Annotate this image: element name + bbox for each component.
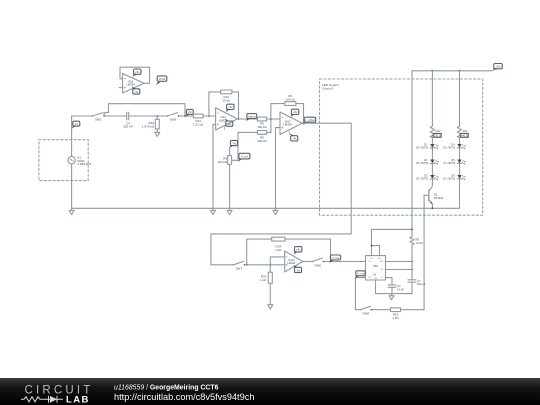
footer bar bbox=[0, 378, 540, 405]
svg-text:+9v: +9v bbox=[296, 248, 301, 252]
flag +9v OA1 bbox=[225, 104, 234, 112]
flag -9v R9 bbox=[229, 140, 237, 148]
node junction R20 bbox=[156, 115, 158, 117]
node thresh bbox=[411, 269, 413, 271]
capacitor C4 bbox=[123, 112, 133, 129]
resistor R11 bbox=[457, 126, 468, 137]
node rail2 bbox=[459, 70, 461, 72]
wire feedback OA2 bbox=[271, 104, 304, 124]
svg-text:12 kΩ: 12 kΩ bbox=[416, 241, 423, 245]
svg-text:100 kΩ: 100 kΩ bbox=[257, 139, 267, 143]
resistor R6 bbox=[257, 131, 267, 143]
wire source vertical bbox=[71, 116, 73, 208]
svg-text:940 Ω: 940 Ω bbox=[461, 133, 468, 137]
svg-text:LTL-30752: LTL-30752 bbox=[416, 161, 429, 165]
voltage source V2 dashed enclosure bbox=[39, 140, 88, 181]
svg-text:V_trig: V_trig bbox=[332, 256, 340, 260]
capacitor C2 bbox=[388, 284, 404, 294]
wire rail to C7 bbox=[411, 245, 413, 294]
flag V_ref bbox=[238, 153, 250, 161]
svg-text:500 nF: 500 nF bbox=[123, 125, 133, 129]
wire OA2 output to comparator loop bbox=[211, 123, 351, 265]
svg-text:SW1: SW1 bbox=[95, 118, 102, 122]
resistor R24 bbox=[272, 237, 285, 252]
node R25 tap bbox=[269, 264, 271, 266]
op-amp OA10 comparator bbox=[270, 251, 303, 272]
flag -9v OA10 bbox=[293, 265, 301, 273]
ground V2 bbox=[69, 208, 74, 214]
switch SW5 bbox=[167, 113, 179, 122]
flag V_offset bbox=[303, 117, 316, 125]
svg-text:530 Ω: 530 Ω bbox=[434, 133, 441, 137]
node 555 vcc bbox=[371, 245, 373, 247]
svg-text:+9v: +9v bbox=[228, 105, 233, 109]
svg-text:u1168559 / GeorgeMeiring CCT6: u1168559 / GeorgeMeiring CCT6 bbox=[114, 385, 219, 392]
flag V_trig bbox=[330, 255, 341, 263]
resistor R16 bbox=[221, 90, 232, 103]
flag -9v OA2 bbox=[289, 131, 297, 141]
LED D2 bbox=[416, 148, 439, 165]
op-amp OA5 buffer bbox=[119, 67, 149, 93]
SCHEMATIC_CONTENT bbox=[39, 64, 502, 321]
svg-text:-9v: -9v bbox=[296, 268, 301, 272]
capacitor C7 bbox=[408, 279, 426, 286]
svg-text:100 kΩ: 100 kΩ bbox=[217, 160, 227, 164]
resistor R4 bbox=[285, 94, 296, 106]
svg-text:555: 555 bbox=[373, 264, 378, 268]
node divider bbox=[270, 118, 272, 120]
svg-text:+9v: +9v bbox=[293, 110, 298, 114]
flag +9v top right bbox=[492, 64, 503, 72]
svg-text:OUT: OUT bbox=[368, 277, 372, 279]
voltage source V2 bbox=[68, 156, 92, 166]
wire +9v rail vertical bbox=[411, 71, 413, 237]
flag -9v OA5 bbox=[132, 86, 140, 94]
LED D6 bbox=[443, 163, 466, 180]
svg-text:Vs: Vs bbox=[75, 122, 79, 126]
svg-text:1 kΩ: 1 kΩ bbox=[275, 248, 282, 252]
svg-text:Vin: Vin bbox=[188, 110, 193, 114]
svg-text:LM324: LM324 bbox=[287, 261, 295, 265]
svg-text:-9v: -9v bbox=[134, 90, 139, 94]
svg-text:SW7: SW7 bbox=[236, 267, 243, 271]
svg-text:-9v: -9v bbox=[232, 141, 237, 145]
flag Vin bbox=[185, 109, 193, 116]
switch SW8 bbox=[360, 306, 372, 315]
switch SW6 bbox=[312, 258, 324, 267]
wire rail2 bottom bbox=[459, 179, 461, 208]
svg-text:SW6: SW6 bbox=[314, 263, 321, 267]
svg-text:LTL-30752: LTL-30752 bbox=[443, 146, 456, 150]
svg-text:2N3904: 2N3904 bbox=[434, 196, 444, 200]
LED D1 bbox=[416, 138, 439, 150]
resistor R21 bbox=[193, 114, 204, 127]
ground OA2 plus bbox=[273, 208, 278, 214]
ground R9 bbox=[227, 208, 232, 214]
ground R20 bbox=[155, 132, 160, 136]
svg-text:V_offset: V_offset bbox=[305, 118, 315, 122]
node OA2 output bbox=[303, 122, 305, 124]
svg-text:R11: R11 bbox=[463, 129, 468, 133]
svg-text:Vnull: Vnull bbox=[159, 77, 166, 81]
wire 555 ground bus bbox=[376, 280, 413, 294]
wire comparator feedback bbox=[247, 239, 331, 265]
resistor R25 bbox=[260, 265, 272, 305]
svg-text:100 kΩ: 100 kΩ bbox=[257, 125, 267, 129]
svg-text:C2: C2 bbox=[397, 284, 401, 288]
svg-text:LTL-30752: LTL-30752 bbox=[416, 177, 429, 181]
svg-text:LTL-30752: LTL-30752 bbox=[416, 146, 429, 150]
wire OA2 plus to ground bbox=[276, 128, 281, 209]
wire Q2 base rail bbox=[423, 195, 425, 309]
svg-text:V_ref: V_ref bbox=[241, 155, 248, 159]
LED D4 bbox=[443, 138, 466, 150]
ground R25 bbox=[268, 305, 273, 309]
flag Vs bbox=[72, 121, 80, 129]
wire 555 vcc loop bbox=[372, 229, 413, 255]
switch SW1 bbox=[92, 113, 105, 122]
flag V_out bbox=[355, 271, 365, 279]
wire rail2 top bbox=[459, 71, 461, 126]
svg-text:1 kΩ: 1 kΩ bbox=[260, 278, 267, 282]
op-amp OA2 bbox=[280, 112, 302, 135]
svg-text:1.685 kHz: 1.685 kHz bbox=[77, 162, 91, 166]
flag +9v OA5 bbox=[132, 69, 141, 77]
svg-text:500 μF: 500 μF bbox=[417, 282, 426, 286]
svg-text:Vamp: Vamp bbox=[248, 114, 256, 118]
svg-text:http://circuitlab.com/c8v5fvs9: http://circuitlab.com/c8v5fvs94t9ch bbox=[114, 392, 254, 402]
svg-text:LM324: LM324 bbox=[283, 123, 292, 127]
wire OA1 output bbox=[237, 118, 257, 120]
node rail 229 bbox=[411, 229, 413, 231]
switch SW7 bbox=[233, 261, 245, 270]
flag Vamp bbox=[246, 114, 257, 122]
svg-text:-9v: -9v bbox=[292, 137, 297, 141]
wire divider node bbox=[267, 119, 280, 132]
svg-text:1.875 kΩ: 1.875 kΩ bbox=[142, 124, 155, 128]
circuitlab logo bbox=[21, 385, 94, 405]
svg-text:SW5: SW5 bbox=[170, 118, 177, 122]
svg-text:LTL-30752: LTL-30752 bbox=[443, 177, 456, 181]
svg-text:-9v: -9v bbox=[227, 122, 232, 126]
flag -9v OA1 bbox=[225, 119, 233, 130]
wire feedback loop OA1 bbox=[209, 92, 239, 119]
svg-text:100 kΩ: 100 kΩ bbox=[286, 97, 296, 101]
resistor R8 bbox=[410, 237, 423, 246]
node disch bbox=[411, 261, 413, 263]
svg-text:10 kΩ: 10 kΩ bbox=[222, 99, 231, 103]
svg-text:U1: U1 bbox=[373, 273, 377, 277]
wire OA1 plus to ground bbox=[213, 124, 216, 208]
flag +9v OA10 bbox=[293, 247, 302, 255]
svg-text:R8: R8 bbox=[416, 238, 420, 242]
node OA1 output bbox=[238, 118, 240, 120]
svg-text:1 kΩ: 1 kΩ bbox=[392, 316, 399, 320]
svg-text:1.21 kΩ: 1.21 kΩ bbox=[193, 123, 204, 127]
node feedback riser bbox=[246, 264, 248, 266]
LED D3 bbox=[416, 163, 439, 180]
wire rail1 top bbox=[431, 71, 433, 126]
svg-text:SW8: SW8 bbox=[363, 312, 370, 316]
wire 555 out loop bbox=[355, 278, 424, 310]
svg-text:Circuit 6: Circuit 6 bbox=[322, 87, 334, 91]
node loop drop bbox=[184, 115, 186, 117]
svg-text:LAB: LAB bbox=[66, 395, 90, 405]
LED D5 bbox=[443, 148, 466, 165]
node feedback OA1 bbox=[208, 115, 210, 117]
wire 555 right pins bbox=[386, 262, 413, 285]
resistor R20 bbox=[142, 116, 159, 132]
wire comparator input bbox=[211, 264, 285, 266]
node Q2 emitter bbox=[432, 207, 434, 209]
svg-text:LM324: LM324 bbox=[126, 83, 135, 87]
node rail1 bbox=[432, 70, 434, 72]
svg-text:10 nF: 10 nF bbox=[397, 287, 404, 291]
svg-text:V_out: V_out bbox=[357, 272, 365, 276]
ground 555 bbox=[389, 294, 394, 300]
svg-text:+9v: +9v bbox=[496, 65, 501, 69]
wire main signal bbox=[72, 115, 216, 117]
transistor Q2 bbox=[424, 179, 444, 208]
wire ground bus bbox=[72, 207, 460, 209]
svg-text:Q2: Q2 bbox=[434, 192, 438, 196]
flag +9v OA2 bbox=[290, 109, 298, 117]
timer 555 U1 bbox=[366, 256, 386, 281]
op-amp OA1 bbox=[216, 108, 238, 130]
resistor R5 bbox=[257, 117, 267, 129]
svg-text:C7: C7 bbox=[417, 279, 421, 283]
svg-text:R12: R12 bbox=[436, 129, 441, 133]
svg-text:RST: RST bbox=[378, 258, 381, 260]
svg-text:+9v: +9v bbox=[135, 70, 140, 74]
wire bypass loop bbox=[109, 104, 186, 116]
LED control dashed enclosure bbox=[320, 79, 483, 215]
wire R6 left to Vref node bbox=[232, 132, 258, 160]
flag Vnull bbox=[156, 76, 167, 85]
resistor R9 bbox=[217, 147, 231, 208]
wire comparator output bbox=[303, 261, 366, 263]
svg-text:LTL-30752: LTL-30752 bbox=[443, 161, 456, 165]
resistor R23 bbox=[390, 308, 400, 320]
wire +9v top rail bbox=[412, 70, 492, 72]
node trig bbox=[330, 261, 332, 263]
ground OA1 plus bbox=[211, 208, 216, 214]
switch SW2 bypass tap bbox=[104, 112, 109, 115]
footer text bbox=[114, 385, 254, 402]
resistor R12 bbox=[430, 126, 441, 137]
